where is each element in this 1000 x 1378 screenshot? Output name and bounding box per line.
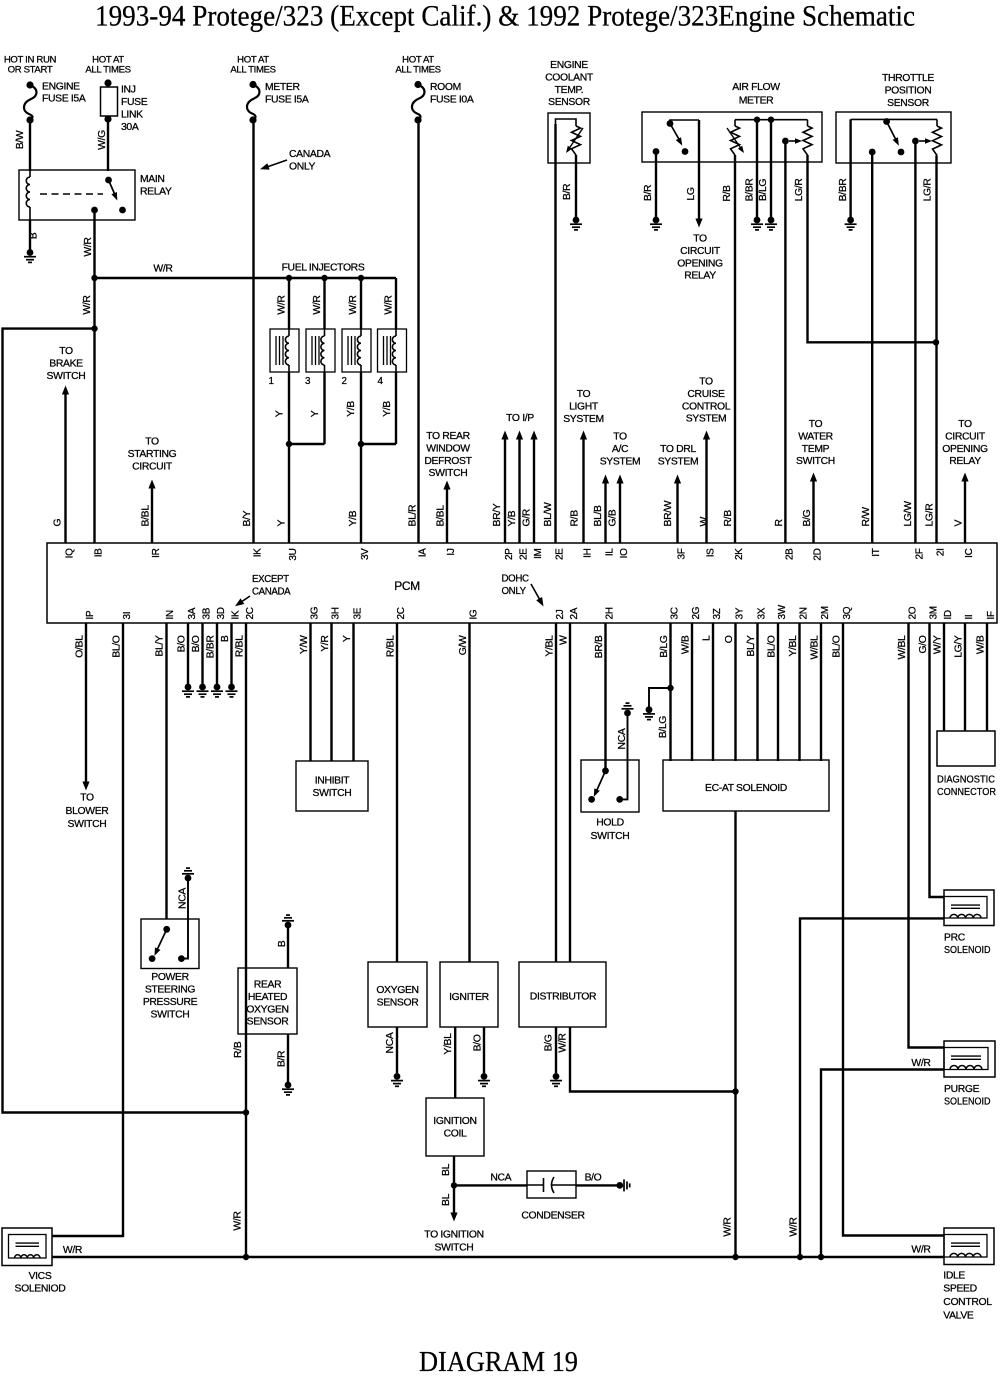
- svg-text:TEMP.: TEMP.: [555, 85, 584, 96]
- svg-text:BR/Y: BR/Y: [492, 503, 503, 526]
- svg-text:B/G: B/G: [544, 1034, 555, 1051]
- svg-text:POWER: POWER: [151, 972, 189, 983]
- svg-text:OXYGEN: OXYGEN: [376, 985, 418, 996]
- ground AFM B/BR: [751, 217, 763, 230]
- svg-text:NCA: NCA: [617, 728, 628, 749]
- svg-text:ALL TIMES: ALL TIMES: [85, 65, 130, 76]
- svg-text:BL/O: BL/O: [767, 635, 778, 658]
- svg-text:LG/R: LG/R: [923, 178, 934, 202]
- svg-text:TO REAR: TO REAR: [426, 431, 470, 442]
- svg-text:W/R: W/R: [558, 1033, 569, 1053]
- svg-text:B/BL: B/BL: [436, 505, 447, 527]
- svg-text:BL/R: BL/R: [407, 504, 418, 527]
- fuse ENGINE FUSE 15A: [24, 81, 37, 123]
- svg-text:TEMP: TEMP: [802, 444, 830, 455]
- svg-text:B/O: B/O: [585, 1172, 602, 1183]
- node W/R rail junction ecat: [732, 1254, 738, 1260]
- svg-text:1993-94 Protege/323 (Except Ca: 1993-94 Protege/323 (Except Calif.) & 19…: [95, 0, 915, 33]
- svg-text:W/R: W/R: [83, 237, 94, 257]
- svg-text:NCA: NCA: [490, 1172, 511, 1183]
- svg-text:SENSOR: SENSOR: [247, 1017, 290, 1028]
- wire G/O pin 3M to PRC solenoid: [930, 623, 945, 897]
- wire Y/B to pin 3V: [360, 444, 362, 543]
- svg-text:O: O: [724, 635, 735, 643]
- svg-text:2B: 2B: [784, 548, 795, 560]
- PSPS contacts: [149, 926, 185, 962]
- node W/R rail junction prc: [797, 1254, 803, 1260]
- svg-text:BL/Y: BL/Y: [155, 635, 166, 657]
- wire W/R main relay output: [93, 210, 95, 543]
- svg-text:IDLE: IDLE: [943, 1270, 965, 1281]
- svg-text:IA: IA: [418, 548, 429, 557]
- wire W/R EC-AT to bottom rail: [734, 811, 736, 1257]
- svg-text:SWITCH: SWITCH: [47, 371, 86, 382]
- svg-text:FUSE I0A: FUSE I0A: [430, 94, 474, 105]
- svg-text:B/G: B/G: [802, 509, 813, 526]
- wire W/R riser to purge: [821, 1070, 944, 1258]
- svg-text:II: II: [964, 615, 975, 620]
- svg-text:SOLENIOD: SOLENIOD: [15, 1284, 66, 1295]
- ground NCA hold switch (floating): [622, 703, 634, 716]
- wire B/R ECT to ground: [575, 155, 577, 217]
- fuel injector 1 box: [270, 329, 299, 372]
- svg-text:IS: IS: [706, 548, 717, 557]
- node injectors 1+3 join: [286, 441, 292, 447]
- label INHIBIT SWITCH: [313, 776, 352, 799]
- svg-text:IG: IG: [469, 609, 480, 619]
- svg-text:SWITCH: SWITCH: [591, 831, 630, 842]
- wire B/LG branch to ground: [649, 688, 671, 707]
- node B/LG branch: [667, 685, 673, 691]
- svg-text:W/R: W/R: [82, 295, 93, 315]
- svg-text:NCA: NCA: [177, 888, 188, 909]
- wire LG arrow to circuit opening relay: [695, 120, 702, 228]
- wire G arrow to brake switch (pin IQ): [62, 386, 69, 544]
- svg-text:PRESSURE: PRESSURE: [143, 997, 198, 1008]
- svg-text:INJ: INJ: [121, 85, 136, 96]
- wire W/R down to bottom rail: [245, 1113, 247, 1258]
- svg-text:LG: LG: [686, 187, 697, 200]
- label TO IGNITION SWITCH: [424, 1229, 483, 1253]
- svg-text:R/BL: R/BL: [235, 635, 246, 657]
- throttle position sensor box: [836, 112, 951, 163]
- label TO STARTING CIRCUIT: [128, 437, 177, 473]
- svg-text:WINDOW: WINDOW: [426, 443, 470, 454]
- wire LG/Y pin II to diagnostic connector: [964, 623, 966, 731]
- AFM potentiometer: [727, 120, 808, 155]
- svg-text:3U: 3U: [288, 548, 299, 560]
- svg-text:W/R: W/R: [312, 295, 323, 315]
- wire Y/R pin 3H to inhibit switch: [330, 623, 332, 761]
- svg-text:B/O: B/O: [473, 1034, 484, 1051]
- label OXYGEN SENSOR: [376, 985, 419, 1008]
- svg-text:EC-AT SOLENOID: EC-AT SOLENOID: [705, 783, 787, 794]
- svg-text:TO: TO: [693, 234, 707, 245]
- svg-text:3D: 3D: [216, 607, 227, 619]
- svg-text:Y: Y: [275, 410, 286, 417]
- wire pin 3B to ground: [201, 623, 203, 684]
- wire B rear O2 sensor: [287, 925, 289, 968]
- svg-text:PURGE: PURGE: [944, 1084, 980, 1095]
- wire pin IK to ground: [230, 623, 232, 684]
- svg-text:Y/B: Y/B: [348, 510, 359, 526]
- svg-text:IGNITER: IGNITER: [449, 992, 490, 1003]
- wire B/BL arrow rear defrost (pin IJ): [443, 481, 450, 544]
- wire W/B pin IF to diagnostic connector: [986, 623, 988, 731]
- svg-text:TO: TO: [699, 377, 713, 388]
- label MAIN RELAY: [140, 174, 172, 197]
- svg-text:BL/W: BL/W: [543, 502, 554, 527]
- svg-text:2C: 2C: [245, 607, 256, 619]
- svg-text:IO: IO: [619, 548, 630, 558]
- ground pin 3B: [197, 684, 209, 697]
- svg-text:SENSOR: SENSOR: [377, 998, 420, 1009]
- wire BL/O pin 3I to VICS solenoid: [52, 623, 123, 1236]
- wire B/BL arrow to starting circuit (pin IR): [148, 480, 155, 544]
- svg-text:2J: 2J: [555, 609, 566, 619]
- wire join 1-3: [289, 443, 325, 445]
- fuel injector 2 box: [342, 329, 371, 372]
- svg-text:V: V: [954, 520, 965, 527]
- label INJ FUSE LINK 30A: [121, 85, 148, 134]
- ground distributor: [550, 1073, 562, 1086]
- svg-text:3G: 3G: [310, 606, 321, 619]
- PRC solenoid box: [944, 890, 994, 926]
- wire O/BL arrow to blower switch (pin IP): [82, 623, 89, 791]
- svg-text:B/LG: B/LG: [658, 716, 669, 739]
- svg-text:HOLD: HOLD: [596, 817, 623, 828]
- ground AFM B/LG: [765, 217, 777, 230]
- wire Y pin 3E to inhibit switch: [352, 623, 354, 761]
- svg-text:SYSTEM: SYSTEM: [686, 414, 727, 425]
- TPS wiper: [912, 138, 932, 145]
- svg-text:R/W: R/W: [861, 507, 872, 527]
- svg-text:W/BL: W/BL: [897, 635, 908, 660]
- svg-text:W/Y: W/Y: [933, 635, 944, 654]
- wire W/R injector feed bus: [95, 277, 397, 279]
- wire R/BL pin 2C through rear O2 sensor: [245, 623, 247, 1113]
- node injector 1 feed: [286, 275, 292, 281]
- svg-text:FUSE: FUSE: [121, 97, 148, 108]
- svg-text:R/B: R/B: [723, 510, 734, 527]
- ground condenser (side): [616, 1179, 629, 1191]
- svg-text:LG/R: LG/R: [794, 178, 805, 202]
- wire pin 3X to EC-AT solenoid: [756, 623, 758, 761]
- svg-text:TO: TO: [145, 437, 159, 448]
- svg-text:SENSOR: SENSOR: [548, 97, 591, 108]
- svg-text:2K: 2K: [734, 548, 745, 560]
- TPS inner bus: [851, 118, 937, 120]
- svg-text:G/W: G/W: [458, 635, 469, 655]
- svg-text:VALVE: VALVE: [943, 1310, 974, 1321]
- svg-text:COOLANT: COOLANT: [545, 72, 594, 83]
- ground ECT: [570, 217, 582, 230]
- svg-text:G/O: G/O: [918, 635, 929, 653]
- svg-text:BL/O: BL/O: [112, 635, 123, 658]
- ground TPS: [845, 217, 857, 230]
- wire B/O igniter to ground: [483, 1027, 485, 1073]
- svg-text:2N: 2N: [799, 607, 810, 619]
- node LG/R join: [933, 339, 939, 345]
- svg-text:BLOWER: BLOWER: [66, 806, 110, 817]
- svg-text:B/R: B/R: [643, 184, 654, 201]
- node injectors 2+4 join: [358, 441, 364, 447]
- label PRC SOLENOID: [944, 933, 991, 956]
- svg-text:BL: BL: [441, 1193, 452, 1206]
- svg-text:G: G: [52, 519, 63, 527]
- wire B/G distributor to ground: [555, 1027, 557, 1073]
- svg-text:TO: TO: [80, 793, 94, 804]
- PCM box: [47, 543, 997, 623]
- svg-text:W/BL: W/BL: [810, 635, 821, 660]
- svg-text:2: 2: [341, 376, 346, 387]
- wire B/R AFM to ground: [655, 152, 657, 218]
- svg-text:3X: 3X: [757, 607, 768, 619]
- svg-text:2F: 2F: [914, 548, 925, 559]
- wire left rail to brake-switch junction and down: [3, 329, 247, 1113]
- svg-text:BL/O: BL/O: [832, 635, 843, 658]
- wire LG/W TPS wiper to pin 2F: [914, 141, 916, 543]
- label PURGE SOLENOID: [944, 1084, 991, 1107]
- svg-text:W/B: W/B: [681, 635, 692, 654]
- svg-text:BR/B: BR/B: [594, 635, 605, 658]
- wire Y/B injector2 down: [360, 372, 362, 444]
- svg-text:DISTRIBUTOR: DISTRIBUTOR: [530, 991, 597, 1002]
- svg-text:SYSTEM: SYSTEM: [658, 456, 699, 467]
- wire R/B AFM to pin 2K: [734, 155, 736, 543]
- svg-text:WATER: WATER: [798, 431, 833, 442]
- wire W/R drop injector 2: [360, 278, 362, 329]
- wire pin 3A to ground: [187, 623, 189, 684]
- svg-text:3C: 3C: [670, 607, 681, 619]
- svg-text:IN: IN: [165, 610, 176, 619]
- wire NCA to condenser: [454, 1184, 527, 1186]
- svg-text:FUSE I5A: FUSE I5A: [42, 94, 86, 105]
- svg-text:SWITCH: SWITCH: [68, 819, 107, 830]
- wire R AFM wiper to pin 2B: [784, 141, 786, 543]
- svg-text:TO IGNITION: TO IGNITION: [424, 1229, 483, 1240]
- wire W/BL pin 2O to purge solenoid: [909, 623, 945, 1048]
- label REAR HEATED OXYGEN SENSOR: [246, 980, 289, 1028]
- wire Y/B injector4 down: [395, 372, 397, 444]
- svg-text:FUSE I5A: FUSE I5A: [265, 94, 309, 105]
- svg-text:LG/Y: LG/Y: [954, 635, 965, 658]
- svg-text:B/O: B/O: [177, 635, 188, 652]
- svg-text:B: B: [220, 635, 231, 642]
- svg-text:HEATED: HEATED: [248, 992, 287, 1003]
- label IGNITION COIL: [433, 1116, 476, 1139]
- wire W/R drop injector 4: [395, 278, 397, 329]
- svg-text:Y/B: Y/B: [507, 510, 518, 526]
- wire pin 3Z to EC-AT solenoid: [712, 623, 714, 761]
- ground rear O2: [282, 1082, 294, 1095]
- wire BL/O pin 3Q to ISC valve: [843, 623, 944, 1236]
- svg-text:TO DRL: TO DRL: [660, 444, 696, 455]
- ignition coil box: [426, 1098, 484, 1156]
- wire B/LG AFM ground: [770, 120, 772, 217]
- svg-text:B/LG: B/LG: [659, 635, 670, 658]
- svg-text:3A: 3A: [187, 607, 198, 619]
- svg-text:PRC: PRC: [944, 933, 966, 944]
- wire pin 3W to EC-AT solenoid: [777, 623, 779, 761]
- svg-text:IK: IK: [231, 610, 242, 619]
- wire NCA hold switch: [620, 715, 628, 799]
- svg-text:W/R: W/R: [384, 295, 395, 315]
- wire Y to pin 3U: [288, 444, 290, 543]
- main relay coil: [26, 170, 30, 220]
- inhibit switch box: [296, 761, 368, 811]
- node W/R rail junction left: [243, 1254, 249, 1260]
- svg-text:3V: 3V: [360, 548, 371, 560]
- label EXCEPT CANADA with arrow: [235, 574, 291, 606]
- svg-text:W: W: [699, 517, 710, 527]
- svg-text:BL/B: BL/B: [593, 505, 604, 527]
- svg-text:W/G: W/G: [97, 130, 108, 150]
- wire R/B arrow to light system (pin IH): [580, 431, 587, 544]
- ground pin 3D: [211, 684, 223, 697]
- wire G/B arrow to A/C (pin IO): [616, 475, 623, 544]
- svg-text:MAIN: MAIN: [140, 174, 165, 185]
- wire Y/BL pin 2J to distributor: [555, 623, 557, 962]
- TPS resistor: [933, 119, 942, 155]
- svg-text:R/B: R/B: [570, 510, 581, 527]
- svg-text:CONTROL: CONTROL: [943, 1297, 992, 1308]
- wire G/R arrow to I/P (pin IM): [530, 431, 537, 544]
- wire LG/R AFM to junction: [808, 155, 937, 342]
- wire Y injector3 down: [323, 372, 325, 444]
- svg-text:G/R: G/R: [522, 508, 533, 526]
- node W/R brake-branch junction: [91, 325, 97, 331]
- node BL junction: [451, 1182, 457, 1188]
- svg-text:W/R: W/R: [911, 1058, 931, 1069]
- svg-text:CANADA: CANADA: [252, 586, 291, 597]
- svg-text:Y: Y: [277, 520, 288, 527]
- svg-text:3Q: 3Q: [842, 606, 853, 619]
- wire W/R drop injector 3: [323, 278, 325, 329]
- svg-text:Y/BL: Y/BL: [443, 1033, 454, 1055]
- svg-text:A/C: A/C: [612, 444, 629, 455]
- fuel injector 4 box: [378, 329, 407, 372]
- wire Y/W pin 3G to inhibit switch: [309, 623, 311, 761]
- svg-text:2E: 2E: [555, 548, 566, 560]
- label HOT IN RUN OR START: [4, 55, 57, 76]
- wire BL arrow to ignition switch: [450, 1185, 457, 1221]
- wire room fuse to PCM pin IA: [417, 120, 419, 543]
- TPS switch: [869, 118, 905, 155]
- svg-text:B: B: [29, 232, 40, 239]
- wire pin 3Y to EC-AT solenoid: [734, 623, 736, 761]
- svg-text:2O: 2O: [908, 606, 919, 619]
- AFM wiper: [782, 138, 802, 145]
- ECT sensor internals: [556, 119, 584, 155]
- svg-text:BR/W: BR/W: [663, 500, 674, 526]
- wire B/BR AFM ground: [756, 120, 758, 217]
- svg-text:TO: TO: [613, 432, 627, 443]
- label AIR FLOW METER: [732, 82, 780, 107]
- wire B/W engine fuse to main relay: [29, 120, 31, 171]
- svg-text:CIRCUIT: CIRCUIT: [132, 461, 173, 472]
- svg-text:B/BR: B/BR: [745, 178, 756, 202]
- svg-text:CIRCUIT: CIRCUIT: [945, 431, 986, 442]
- label CANADA ONLY with arrow: [260, 149, 331, 172]
- ground pin IK: [226, 684, 238, 697]
- svg-text:INHIBIT: INHIBIT: [315, 776, 350, 787]
- svg-text:Y: Y: [342, 635, 353, 642]
- svg-text:SOLENOID: SOLENOID: [944, 945, 991, 956]
- wire BL ignition coil down: [453, 1156, 455, 1185]
- svg-text:DEFROST: DEFROST: [424, 456, 472, 467]
- AFM switch: [653, 120, 699, 155]
- wire W/G fuse link to main relay: [107, 119, 109, 171]
- svg-text:RELAY: RELAY: [140, 186, 172, 197]
- label HOT AT ALL TIMES (inj): [85, 55, 130, 76]
- svg-text:THROTTLE: THROTTLE: [882, 73, 934, 84]
- svg-text:ID: ID: [943, 610, 954, 619]
- wire pin 2N to EC-AT solenoid: [798, 623, 800, 761]
- engine coolant temp sensor box: [548, 113, 590, 163]
- svg-text:G/B: G/B: [608, 509, 619, 526]
- svg-text:PCM: PCM: [394, 579, 420, 593]
- label TO LIGHT SYSTEM: [563, 389, 604, 425]
- ground igniter: [478, 1073, 490, 1086]
- wire Y/BL igniter to ignition coil: [454, 1027, 456, 1098]
- svg-text:EXCEPT: EXCEPT: [252, 574, 289, 585]
- svg-text:IGNITION: IGNITION: [433, 1116, 476, 1127]
- svg-text:CANADA: CANADA: [289, 149, 331, 160]
- svg-text:W/R: W/R: [348, 295, 359, 315]
- wire BR/Y arrow to I/P (pin 2P): [501, 431, 508, 544]
- diagnostic connector box: [937, 731, 995, 766]
- svg-text:TO I/P: TO I/P: [506, 413, 534, 424]
- label ROOM FUSE 10A: [430, 82, 474, 105]
- ground pin 3A: [182, 684, 194, 697]
- svg-text:W/R: W/R: [277, 295, 288, 315]
- svg-text:SWITCH: SWITCH: [429, 468, 468, 479]
- svg-text:2I: 2I: [936, 549, 947, 557]
- label TO DRL SYSTEM: [658, 444, 699, 467]
- svg-text:3Z: 3Z: [712, 608, 723, 619]
- idle speed control valve box: [944, 1228, 994, 1265]
- EC-AT solenoid box: [663, 760, 829, 811]
- wire BL/Y pin IN to power steering switch: [165, 623, 167, 919]
- svg-text:3H: 3H: [331, 607, 342, 619]
- svg-text:R/B: R/B: [722, 185, 733, 202]
- svg-text:RELAY: RELAY: [684, 271, 716, 282]
- svg-text:SENSOR: SENSOR: [887, 98, 930, 109]
- wire B/LG pin 3C to EC-AT: [669, 623, 671, 761]
- wire join 2-4: [361, 443, 396, 445]
- svg-text:SYSTEM: SYSTEM: [600, 456, 641, 467]
- node W/R junction at y1112: [243, 1109, 249, 1115]
- ground AFM switch: [650, 217, 662, 230]
- svg-text:IH: IH: [583, 548, 594, 557]
- svg-text:COIL: COIL: [444, 1128, 467, 1139]
- condenser box: [527, 1171, 576, 1198]
- svg-text:W/R: W/R: [63, 1245, 83, 1256]
- svg-text:B/W: B/W: [15, 130, 26, 149]
- svg-text:B/LG: B/LG: [758, 179, 769, 202]
- power steering pressure switch box: [141, 919, 199, 969]
- label TO BRAKE SWITCH: [47, 346, 86, 382]
- condenser capacitor symbol: [527, 1177, 576, 1193]
- svg-text:CRUISE: CRUISE: [687, 389, 725, 400]
- label THROTTLE POSITION SENSOR: [882, 73, 934, 109]
- ground oxygen sensor: [391, 1073, 403, 1086]
- svg-text:METER: METER: [739, 96, 774, 107]
- wire NCA oxygen sensor to ground: [396, 1027, 398, 1073]
- svg-text:DIAGRAM 19: DIAGRAM 19: [419, 1346, 578, 1378]
- wire NCA power steering switch: [181, 880, 188, 959]
